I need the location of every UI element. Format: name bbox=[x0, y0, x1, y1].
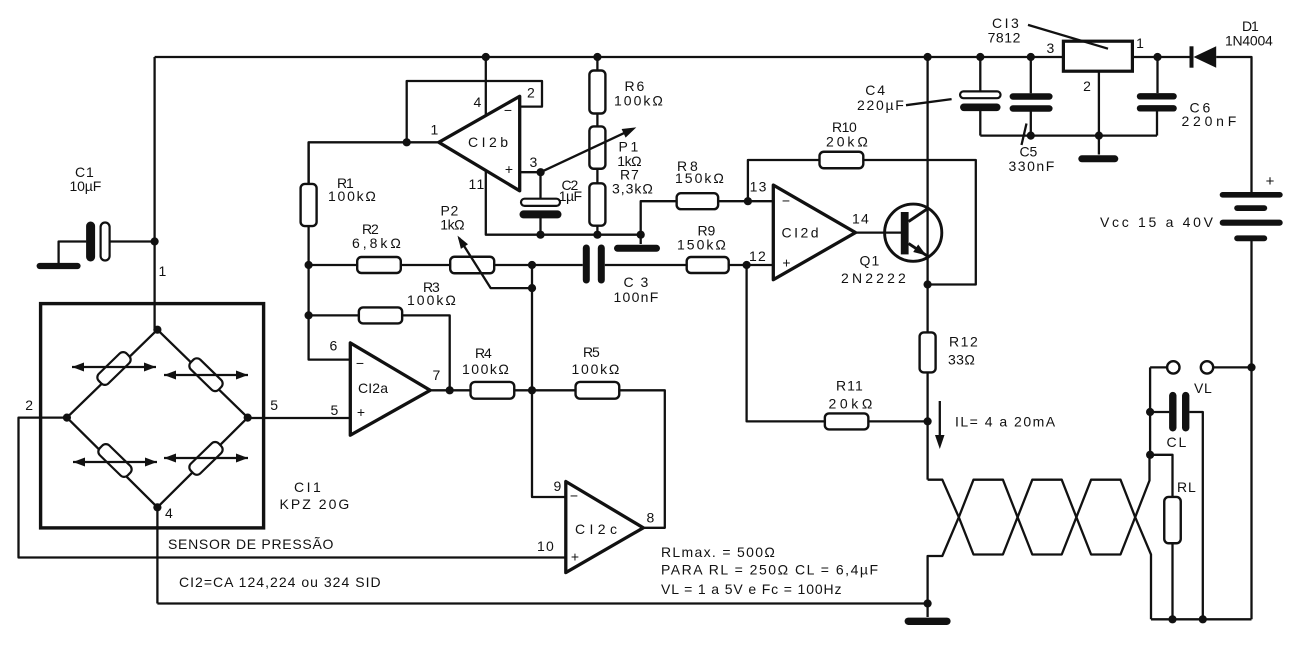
wire: mid line left of C3 bbox=[309, 264, 583, 266]
wire: P1-R7 lead bbox=[596, 169, 598, 184]
op-amp CI2d bbox=[773, 185, 855, 280]
svg-text:CI1: CI1 bbox=[294, 479, 322, 495]
potentiometer P1 bbox=[589, 126, 605, 168]
resistor R8 bbox=[677, 193, 719, 209]
wire: junction down to CI2c pin 9 bbox=[532, 265, 566, 497]
wire: CI2a output to R4 bbox=[430, 389, 470, 391]
wire: R6-P1 lead bbox=[596, 114, 598, 127]
node: V+ rail junction to Q1 collector bbox=[924, 53, 932, 61]
regulator CI3 body bbox=[1063, 41, 1132, 71]
pointer line CI3 bbox=[1028, 25, 1108, 49]
resistor RL bbox=[1164, 497, 1181, 543]
svg-text:SENSOR DE PRESSÃO: SENSOR DE PRESSÃO bbox=[168, 536, 335, 552]
svg-text:1µF: 1µF bbox=[559, 188, 584, 204]
node: RL top junction bbox=[1146, 451, 1154, 459]
wire: Q1 collector to V+ rail bbox=[926, 57, 928, 285]
wire: left rail to VL terminal bbox=[1150, 366, 1167, 368]
wire: CL left lead bbox=[1150, 411, 1169, 413]
wire: bridge pin 2 to CI2c pin 10 bbox=[19, 418, 566, 558]
svg-text:+: + bbox=[1266, 173, 1275, 190]
wire: ground stub bottom bbox=[926, 604, 928, 618]
svg-text:330nF: 330nF bbox=[1009, 158, 1056, 174]
transistor Q1 collector lead bbox=[909, 208, 929, 222]
wire: C4 top stub bbox=[979, 57, 981, 92]
wire: C6 top stub bbox=[1156, 57, 1158, 93]
svg-text:1kΩ: 1kΩ bbox=[440, 217, 466, 233]
node: V+ rail junction to R6 chain bbox=[593, 53, 601, 61]
svg-text:6,8kΩ: 6,8kΩ bbox=[352, 235, 402, 251]
svg-text:4: 4 bbox=[165, 505, 174, 521]
node: CI2b pin3 junction bbox=[537, 168, 545, 176]
node: CI2d pin12 junction bbox=[743, 261, 751, 269]
strain gauge (bottom-left arm) bbox=[96, 442, 133, 479]
wire: C6 bottom stub bbox=[1156, 108, 1158, 135]
capacitor C6 top plate bbox=[1137, 93, 1177, 99]
wire: R10 loop right bbox=[863, 160, 976, 285]
potentiometer P2 bbox=[450, 257, 494, 274]
svg-text:C4: C4 bbox=[865, 82, 886, 98]
wire: R10 loop left bbox=[748, 160, 820, 201]
resistor R10 bbox=[820, 152, 864, 169]
node: R11 junction bbox=[924, 417, 932, 425]
node: bridge pin 1 (top vertex) bbox=[153, 326, 161, 334]
svg-text:7812: 7812 bbox=[988, 30, 1022, 46]
svg-text:CI2=CA 124,224 ou 324 SID: CI2=CA 124,224 ou 324 SID bbox=[179, 574, 382, 590]
strain gauge (top-left arm) bbox=[95, 350, 132, 387]
wire: twisted pair conductor A bbox=[928, 455, 1150, 555]
wire: R11 junction down to twisted pair bbox=[926, 421, 928, 479]
resistor R11 bbox=[825, 413, 869, 429]
arrowhead P2 wiper bbox=[458, 236, 469, 249]
svg-text:−: − bbox=[570, 488, 578, 504]
node: C1 junction on left rail bbox=[151, 237, 159, 245]
wire: right rail (battery minus to bottom) bbox=[1250, 241, 1252, 619]
resistor R12 bbox=[920, 332, 936, 372]
wire: bottom right bus bbox=[1151, 618, 1252, 620]
wire: R11 to junction bbox=[868, 420, 927, 422]
svg-text:+: + bbox=[505, 161, 513, 177]
wire: CI2d pin12 down to R11 bbox=[747, 265, 825, 421]
wire: R5 to CI2c output loop bbox=[619, 390, 665, 528]
svg-text:8: 8 bbox=[647, 510, 656, 526]
wire: D1 to right rail corner bbox=[1216, 57, 1251, 192]
svg-text:1N4004: 1N4004 bbox=[1225, 33, 1274, 49]
svg-text:5: 5 bbox=[331, 402, 340, 418]
svg-text:11: 11 bbox=[469, 176, 486, 192]
wire: CL right lead to middle rail bbox=[1189, 412, 1202, 619]
svg-text:CI2a: CI2a bbox=[358, 380, 390, 396]
svg-text:3,3kΩ: 3,3kΩ bbox=[612, 181, 654, 197]
op-amp CI2a bbox=[350, 343, 430, 435]
svg-text:+: + bbox=[571, 549, 579, 565]
node: R7 bottom junction bbox=[593, 231, 601, 239]
resistor R6 bbox=[589, 71, 605, 114]
wire: R12 to R11 junction bbox=[926, 372, 928, 421]
node: R4/R5 junction bbox=[528, 386, 536, 394]
svg-text:100kΩ: 100kΩ bbox=[572, 361, 621, 377]
capacitor CL left plate bbox=[1169, 392, 1176, 432]
wire: C2 top stub bbox=[539, 172, 541, 199]
svg-text:10µF: 10µF bbox=[70, 178, 103, 194]
svg-text:Q1: Q1 bbox=[860, 253, 881, 269]
svg-text:RL: RL bbox=[1177, 479, 1197, 495]
node: CL left junction bbox=[1146, 408, 1154, 416]
svg-text:100kΩ: 100kΩ bbox=[328, 188, 377, 204]
wire: C5 bottom stub bbox=[1030, 109, 1032, 136]
strain gauge (bottom-right arm) bbox=[187, 440, 224, 477]
sensor CI1 box bbox=[41, 304, 264, 528]
svg-text:150kΩ: 150kΩ bbox=[675, 170, 725, 186]
svg-text:33Ω: 33Ω bbox=[948, 352, 976, 368]
resistor R7 bbox=[589, 183, 605, 225]
svg-text:R4: R4 bbox=[475, 345, 493, 361]
node: right rail VL junction bbox=[1247, 363, 1255, 371]
svg-text:100kΩ: 100kΩ bbox=[407, 292, 457, 308]
svg-text:CI2b: CI2b bbox=[468, 134, 510, 150]
transistor Q1 circle bbox=[885, 204, 942, 261]
svg-text:2: 2 bbox=[1083, 78, 1092, 94]
transistor Q1 base bar bbox=[901, 212, 909, 254]
wire: bridge pin 5 to CI2a pin 5 bbox=[248, 417, 351, 419]
svg-text:220µF: 220µF bbox=[857, 97, 905, 113]
gauge arrow (bottom-right) bbox=[164, 457, 248, 459]
svg-text:220nF: 220nF bbox=[1182, 113, 1238, 129]
capacitor C5 top plate bbox=[1010, 93, 1053, 100]
svg-text:3: 3 bbox=[1047, 40, 1056, 56]
wire: VL right terminal to right rail bbox=[1213, 366, 1251, 368]
op-amp CI2b bbox=[439, 96, 520, 191]
capacitor C1 ground stub bbox=[59, 242, 87, 264]
wire: bottom ground rail bbox=[157, 602, 927, 604]
resistor R4 bbox=[471, 382, 515, 399]
wire: R6 top lead bbox=[596, 57, 598, 71]
svg-text:+: + bbox=[782, 255, 790, 271]
capacitor C4 positive plate bbox=[960, 91, 1001, 98]
node: bridge pin 2 (left vertex) bbox=[63, 414, 71, 422]
resistor R2 bbox=[357, 257, 401, 273]
wire: R4 to R5 bbox=[514, 389, 575, 391]
wire: C1 to left rail bbox=[110, 240, 155, 242]
op-amp CI2c bbox=[566, 482, 644, 573]
wire: P2 wiper bbox=[459, 238, 532, 288]
svg-text:12: 12 bbox=[749, 248, 767, 264]
wire: left load rail bbox=[1149, 367, 1151, 454]
diode D1 cathode bar bbox=[1190, 46, 1194, 67]
svg-text:R12: R12 bbox=[949, 334, 979, 350]
svg-text:VL: VL bbox=[1194, 380, 1213, 396]
svg-text:6: 6 bbox=[330, 338, 339, 354]
svg-text:−: − bbox=[504, 102, 512, 118]
wire: R3 to CI2a output bbox=[402, 315, 450, 390]
wire: ground stub near C3 bbox=[640, 235, 642, 244]
wire: P1 wiper to CI2b pin3 bbox=[541, 130, 631, 172]
wire: R8 to pin13 junction bbox=[718, 200, 748, 202]
wire: R1 branch vertical bbox=[309, 142, 351, 359]
arrowhead Q1 emitter bbox=[913, 245, 926, 256]
resistor R5 bbox=[576, 382, 620, 399]
pointer line C5 bbox=[1022, 124, 1027, 146]
diode D1 body bbox=[1194, 46, 1217, 67]
node: V+ rail junction to CI2b pin4 bbox=[482, 53, 490, 61]
svg-text:7: 7 bbox=[433, 367, 442, 383]
wire: junction up to R8 bbox=[641, 201, 677, 235]
wire: bridge pin 4 down to bottom rail bbox=[156, 507, 158, 603]
capacitor C3 left plate bbox=[583, 245, 590, 284]
wire: CI2b pin11 supply line bbox=[486, 171, 641, 235]
current arrow IL bbox=[939, 401, 941, 441]
svg-text:R11: R11 bbox=[836, 378, 864, 394]
svg-text:10: 10 bbox=[537, 538, 555, 554]
capacitor C5 bottom plate bbox=[1010, 105, 1053, 112]
ground (bottom rail) bbox=[905, 618, 951, 625]
capacitor C1 negative plate bbox=[86, 222, 95, 262]
svg-text:100nF: 100nF bbox=[614, 289, 660, 305]
node: bridge pin 5 (right vertex) bbox=[244, 414, 252, 422]
node: CI2b feedback junction bbox=[403, 138, 411, 146]
svg-text:PARA RL = 250Ω CL = 6,4µF: PARA RL = 250Ω CL = 6,4µF bbox=[661, 562, 880, 578]
wire: Q1 emitter down to R12 bbox=[926, 285, 928, 333]
wire: C4 bottom stub bbox=[979, 107, 981, 135]
node: CI2d pin13 junction bbox=[744, 197, 752, 205]
svg-text:KPZ 20G: KPZ 20G bbox=[280, 496, 351, 512]
svg-text:2: 2 bbox=[527, 85, 536, 101]
resistor R3 bbox=[359, 307, 402, 323]
svg-text:9: 9 bbox=[554, 478, 563, 494]
wire: mid line right of C3 bbox=[605, 264, 774, 266]
capacitor C3 right plate bbox=[598, 245, 605, 284]
wire: RL bottom lead bbox=[1171, 543, 1173, 619]
wire: pin13 junction to CI2d bbox=[748, 200, 773, 202]
terminal VL left bbox=[1167, 361, 1179, 373]
svg-text:Vcc 15 a 40V: Vcc 15 a 40V bbox=[1100, 214, 1214, 230]
wire: RL top lead bbox=[1150, 455, 1172, 497]
pointer line C4 bbox=[906, 99, 952, 105]
svg-text:150kΩ: 150kΩ bbox=[677, 237, 727, 253]
svg-text:5: 5 bbox=[270, 397, 279, 413]
capacitor C6 bottom plate bbox=[1137, 105, 1177, 111]
wire: CI3 pin2 down bbox=[1098, 71, 1100, 136]
gauge arrow (top-left) bbox=[72, 366, 156, 368]
svg-text:14: 14 bbox=[852, 211, 870, 227]
capacitor C2 positive plate bbox=[521, 199, 560, 206]
node: R1/R2 junction bbox=[305, 261, 313, 269]
node: C2 to supply line bbox=[536, 231, 544, 239]
svg-text:1: 1 bbox=[431, 122, 440, 138]
wire: left rail down to bridge pin 1 bbox=[153, 57, 155, 330]
svg-text:CI2c: CI2c bbox=[575, 521, 619, 537]
ground (CI3) bbox=[1078, 155, 1118, 162]
wire: filter ground bus bbox=[980, 134, 1157, 136]
svg-text:IL= 4 a 20mA: IL= 4 a 20mA bbox=[955, 414, 1057, 430]
wire: C2 bottom stub bbox=[539, 214, 541, 234]
resistor R1 bbox=[301, 184, 317, 226]
node: middle rail bottom junction bbox=[1199, 615, 1207, 623]
svg-text:−: − bbox=[782, 193, 790, 209]
battery plate long top bbox=[1220, 192, 1283, 198]
resistor R9 bbox=[687, 257, 729, 273]
battery plate short 2 bbox=[1234, 235, 1267, 241]
wire: CI2b pin1 output to R1 top bbox=[309, 142, 439, 184]
svg-text:13: 13 bbox=[750, 179, 768, 195]
node: P2 wiper tie bbox=[528, 284, 536, 292]
capacitor CL right plate bbox=[1182, 392, 1189, 432]
node: CI3 pin2 bus junction bbox=[1095, 132, 1103, 140]
svg-text:100kΩ: 100kΩ bbox=[614, 93, 664, 109]
node: V+ rail junction to C5 bbox=[1027, 53, 1035, 61]
svg-text:1: 1 bbox=[1136, 35, 1145, 51]
svg-text:VL = 1 a 5V e Fc = 100Hz: VL = 1 a 5V e Fc = 100Hz bbox=[661, 581, 843, 597]
node: V+ rail junction to C4 bbox=[976, 53, 984, 61]
gauge arrow (top-right) bbox=[164, 374, 248, 376]
wire: CI2b pin3 lead bbox=[520, 171, 541, 173]
capacitor C4 negative plate bbox=[960, 104, 1001, 112]
svg-text:4: 4 bbox=[474, 94, 483, 110]
wire: CI2b feedback loop pin1-pin2 bbox=[407, 81, 542, 142]
node: supply-line / R8 corner junction bbox=[637, 231, 645, 239]
svg-text:2: 2 bbox=[25, 397, 34, 413]
wire: C5 top stub bbox=[1030, 57, 1032, 93]
svg-text:20kΩ: 20kΩ bbox=[826, 134, 869, 150]
capacitor C1 positive plate bbox=[101, 223, 110, 261]
node: RL bottom junction bbox=[1168, 615, 1176, 623]
node: R3 junction bbox=[305, 311, 313, 319]
strain gauge (top-right arm) bbox=[187, 356, 224, 393]
bridge diamond wires bbox=[67, 330, 248, 508]
wire: CI2d output to Q1 base bbox=[856, 231, 902, 233]
svg-text:20kΩ: 20kΩ bbox=[829, 396, 874, 412]
svg-text:+: + bbox=[357, 404, 365, 420]
svg-text:RLmax. = 500Ω: RLmax. = 500Ω bbox=[661, 544, 777, 560]
svg-text:100kΩ: 100kΩ bbox=[462, 361, 510, 377]
battery plate long bottom bbox=[1220, 220, 1283, 226]
terminal VL right bbox=[1201, 361, 1213, 373]
gauge arrow (bottom-left) bbox=[73, 461, 157, 463]
wire: twisted pair conductor B bbox=[928, 480, 1151, 620]
node: emitter / R10 junction bbox=[924, 280, 932, 288]
wire: R7 bottom lead bbox=[596, 226, 598, 235]
node: P2 wiper junction on mid line bbox=[528, 261, 536, 269]
svg-text:−: − bbox=[356, 355, 364, 371]
svg-text:R5: R5 bbox=[583, 344, 601, 360]
node: C5 bus junction bbox=[1027, 132, 1035, 140]
ground (signal, near C3) bbox=[614, 245, 660, 252]
arrowhead IL bbox=[935, 435, 945, 449]
node: bridge pin 4 (bottom vertex) bbox=[153, 503, 161, 511]
wire: CI3 pin1 to D1 bbox=[1132, 56, 1189, 58]
wire: CI3 ground stub bbox=[1098, 136, 1100, 155]
svg-text:3: 3 bbox=[530, 154, 539, 170]
arrowhead P1 wiper bbox=[622, 127, 637, 137]
svg-text:1: 1 bbox=[159, 263, 168, 279]
battery plate short 1 bbox=[1234, 205, 1267, 211]
wire: CI2b pin4 supply stub bbox=[485, 57, 487, 115]
node: C6 top junction bbox=[1153, 53, 1161, 61]
transistor Q1 emitter lead bbox=[909, 244, 930, 258]
svg-text:CL: CL bbox=[1167, 434, 1188, 450]
capacitor C2 negative plate bbox=[520, 210, 562, 218]
ground (C1) bbox=[37, 263, 81, 269]
resistor R3 with leads bbox=[309, 314, 359, 316]
wire: top V+ rail bbox=[155, 56, 1064, 58]
node: R3 feedback junction bbox=[446, 386, 454, 394]
svg-text:CI2d: CI2d bbox=[782, 225, 821, 241]
node: ground junction bottom rail bbox=[924, 599, 932, 607]
